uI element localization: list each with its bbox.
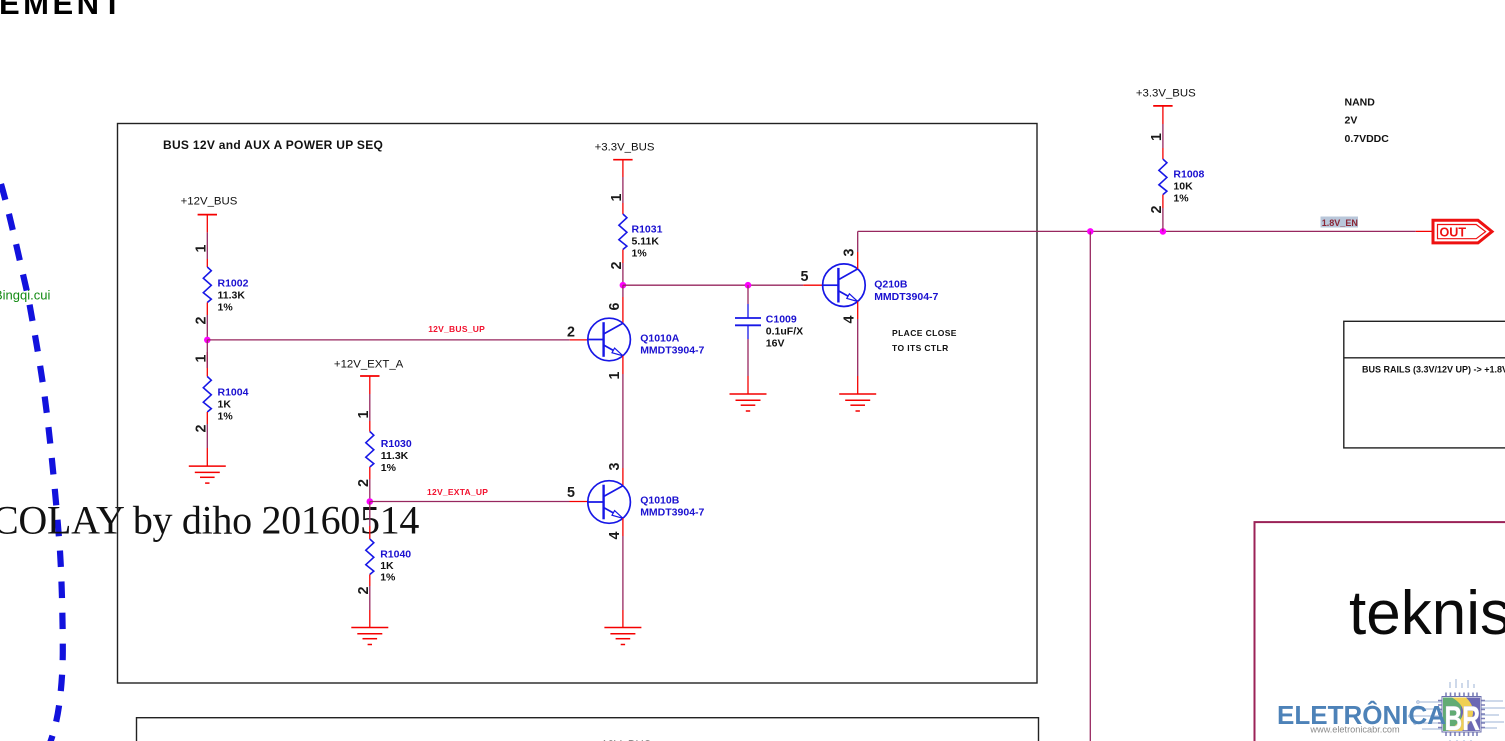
svg-text:3: 3: [607, 462, 623, 470]
power symbol +3.3V_BUS: [613, 159, 632, 161]
svg-text:11.3K: 11.3K: [218, 290, 246, 302]
svg-text:1: 1: [356, 410, 372, 418]
svg-text:1%: 1%: [218, 302, 234, 314]
junction to vertical feed: [1087, 228, 1094, 235]
svg-text:MMDT3904-7: MMDT3904-7: [874, 291, 938, 303]
wire R1008 to rail: [1162, 195, 1164, 232]
wire 1.8V_EN horizontal rail: [858, 230, 1433, 232]
svg-text:1: 1: [193, 244, 209, 252]
svg-text:1: 1: [607, 371, 623, 379]
svg-text:+3.3V_BUS: +3.3V_BUS: [595, 142, 655, 154]
svg-text:3: 3: [842, 248, 858, 256]
ground (Q210B): [839, 394, 876, 411]
svg-text:BUS RAILS (3.3V/12V UP) -> +1.: BUS RAILS (3.3V/12V UP) -> +1.8V -: [1362, 365, 1505, 375]
svg-text:2: 2: [567, 324, 575, 340]
svg-text:1%: 1%: [1173, 193, 1189, 205]
wire R1030 to node: [369, 467, 371, 502]
svg-text:1%: 1%: [381, 462, 397, 474]
svg-text:C1009: C1009: [766, 314, 797, 326]
svg-text:+12V_BUS: +12V_BUS: [181, 195, 238, 207]
wire +12V_EXT_A to R1030: [369, 376, 371, 432]
svg-text:Bingqi.cui: Bingqi.cui: [0, 288, 50, 303]
transistor Q1010A: [588, 318, 631, 361]
svg-text:4: 4: [842, 315, 858, 323]
notes table frame: [1344, 321, 1505, 448]
svg-text:0.1uF/X: 0.1uF/X: [766, 326, 803, 338]
svg-text:EMENT: EMENT: [0, 0, 125, 21]
svg-text:MMDT3904-7: MMDT3904-7: [640, 507, 704, 519]
wire node to Q1010A collector: [622, 285, 624, 323]
svg-text:+3.3V_BUS: +3.3V_BUS: [1136, 88, 1196, 100]
wire R1040 to ground: [369, 575, 371, 628]
wire Q1010A emitter to Q1010B collector: [622, 356, 624, 486]
main schematic block frame: [118, 124, 1038, 684]
blue dashed revision curve: [1, 184, 63, 741]
svg-text:5.11K: 5.11K: [632, 236, 660, 248]
ground (C1009): [730, 394, 767, 411]
svg-text:R1002: R1002: [218, 278, 249, 290]
wire +3.3V_BUS to R1031: [622, 160, 624, 214]
wire R1031 to node: [622, 250, 624, 286]
resistor R1002 11.3K: [203, 267, 211, 303]
wire +3.3V_BUS to R1008: [1162, 106, 1164, 159]
svg-text:Q1010B: Q1010B: [640, 495, 680, 507]
wire node to R1004: [206, 340, 208, 377]
svg-text:teknis: teknis: [1349, 579, 1505, 648]
power symbol +12V_BUS: [198, 214, 217, 216]
logo chip pins: [1438, 693, 1485, 737]
logo circuit traces left/right: [1409, 679, 1505, 741]
wire C1009 to ground: [747, 325, 749, 394]
net label 1.8V_EN (highlighted): [1321, 217, 1359, 228]
svg-text:10K: 10K: [1173, 181, 1193, 193]
svg-text:COLAY by diho 20160514: COLAY by diho 20160514: [0, 498, 419, 543]
svg-text:16V: 16V: [766, 338, 785, 350]
watermark frame (bottom right): [1255, 522, 1505, 741]
svg-text:PLACE CLOSE: PLACE CLOSE: [892, 328, 957, 338]
resistor R1008 10K: [1159, 159, 1167, 195]
logo chip body: [1442, 697, 1481, 733]
logo ELETRONICA BR chip: [1409, 679, 1505, 741]
svg-text:1%: 1%: [380, 572, 396, 584]
resistor R1031 5.11K: [619, 214, 627, 250]
svg-text:1K: 1K: [218, 399, 232, 411]
power symbol +3.3V_BUS (right): [1153, 105, 1172, 107]
junction to R1008: [1160, 228, 1167, 235]
svg-text:TO ITS CTLR: TO ITS CTLR: [892, 343, 949, 353]
svg-text:1.8V_EN: 1.8V_EN: [1322, 218, 1358, 228]
wire Q1010B emitter to ground: [622, 518, 624, 627]
svg-text:1K: 1K: [380, 560, 394, 572]
svg-text:OUT: OUT: [1440, 225, 1467, 239]
svg-text:NAND: NAND: [1345, 97, 1376, 109]
svg-text:1%: 1%: [218, 411, 234, 423]
svg-text:Q210B: Q210B: [874, 279, 908, 291]
svg-text:5: 5: [801, 269, 809, 285]
svg-text:12V_EXTA_UP: 12V_EXTA_UP: [427, 487, 488, 497]
ground (R1040): [351, 628, 388, 645]
capacitor C1009 0.1uF: [735, 318, 761, 325]
lower schematic block frame (clipped at bottom): [137, 718, 1039, 741]
wire Q210B emitter to ground: [857, 302, 859, 395]
svg-text:BUS 12V and AUX A POWER UP SEQ: BUS 12V and AUX A POWER UP SEQ: [163, 138, 383, 152]
node C1009 junction: [745, 282, 752, 289]
svg-text:BR: BR: [1445, 700, 1481, 738]
svg-text:12V_BUS_UP: 12V_BUS_UP: [428, 324, 485, 334]
svg-text:6: 6: [607, 302, 623, 310]
wire node to R1040: [369, 502, 371, 540]
note NAND 2V 0.7VDDC: [1345, 97, 1390, 145]
power symbol +12V_EXT_A: [360, 375, 379, 377]
svg-text:R1030: R1030: [381, 438, 412, 450]
node R1031/C1009/Q210B junction: [620, 282, 627, 289]
wire node to Q210B base: [623, 284, 823, 286]
svg-text:11.3K: 11.3K: [381, 450, 409, 462]
svg-text:5: 5: [567, 485, 575, 501]
svg-text:4: 4: [607, 531, 623, 539]
ground (Q1010B): [604, 628, 641, 645]
wire R1002 to node: [206, 303, 208, 340]
svg-text:R1031: R1031: [632, 224, 663, 236]
svg-text:2V: 2V: [1345, 115, 1358, 127]
svg-text:www.eletronicabr.com: www.eletronicabr.com: [1309, 725, 1400, 735]
wire Q210B collector up to 1.8V_EN rail: [857, 231, 859, 269]
transistor Q1010B: [588, 481, 631, 524]
resistor R1040 1K: [366, 539, 374, 575]
wire node to Q1010A base: [207, 339, 588, 341]
resistor R1004 1K: [203, 377, 211, 413]
wire node to Q1010B base: [370, 501, 588, 503]
svg-text:+12V_EXT_A: +12V_EXT_A: [334, 358, 404, 370]
wire +12V_BUS to R1002: [206, 215, 208, 267]
resistor R1030 11.3K: [366, 432, 374, 468]
off-page connector OUT: [1433, 220, 1492, 243]
node 12V_EXTA_UP junction: [367, 498, 374, 505]
svg-text:R1040: R1040: [380, 549, 411, 561]
ground (R1004): [189, 466, 226, 483]
notes table header divider: [1344, 357, 1505, 359]
svg-text:Q1010A: Q1010A: [640, 333, 680, 345]
svg-text:1: 1: [1149, 133, 1165, 141]
svg-text:1: 1: [609, 193, 625, 201]
wire node to C1009: [747, 285, 749, 318]
svg-text:R1008: R1008: [1173, 169, 1204, 181]
wire R1004 to ground: [206, 412, 208, 466]
svg-text:0.7VDDC: 0.7VDDC: [1345, 133, 1390, 145]
svg-text:R1004: R1004: [218, 387, 249, 399]
wire vertical feed down: [1089, 231, 1091, 741]
node 12V_BUS_UP junction: [204, 337, 211, 344]
svg-text:1%: 1%: [632, 248, 648, 260]
svg-text:MMDT3904-7: MMDT3904-7: [640, 345, 704, 357]
transistor Q210B: [823, 264, 866, 307]
